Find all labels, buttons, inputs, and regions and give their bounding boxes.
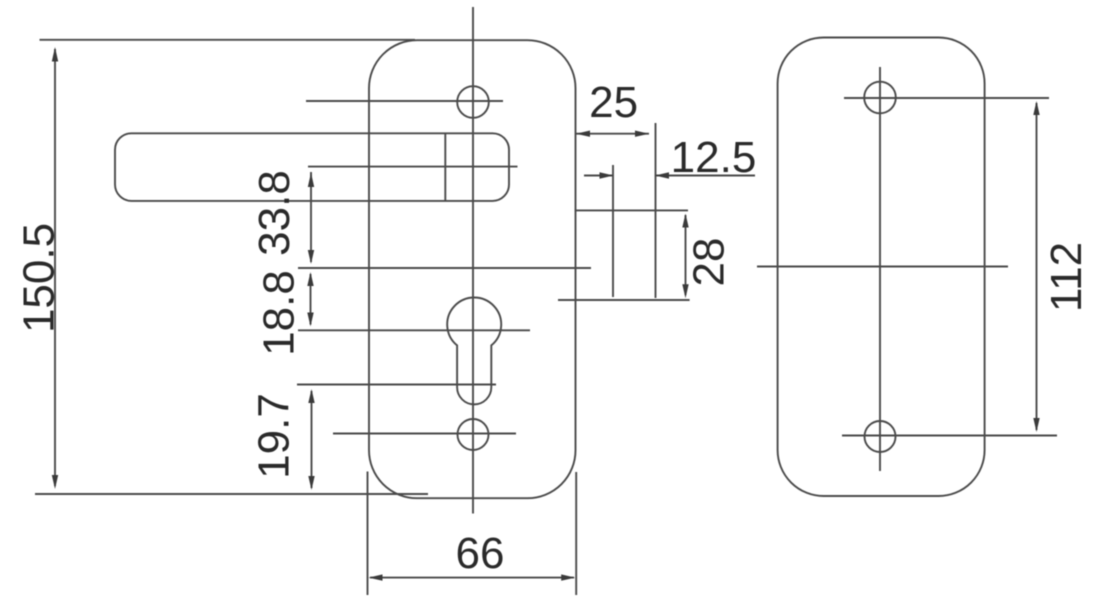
svg-text:33.8: 33.8 [250, 170, 299, 256]
dimension line 25 [576, 133, 649, 135]
arrowhead 33.8 down [308, 250, 314, 264]
arrowhead 19.7 up [308, 389, 314, 403]
dimension line 18.8 [310, 274, 312, 325]
arrowhead 150.5 down [52, 475, 58, 489]
svg-text:112: 112 [1042, 242, 1091, 312]
middle horizontal line top (28) [575, 209, 689, 211]
arrowhead 150.5 up [52, 47, 58, 62]
main plate outline [369, 40, 576, 498]
arrowhead 66 left [369, 574, 383, 580]
bottom extension line (150.5) [35, 493, 428, 495]
svg-text:18.8: 18.8 [255, 270, 304, 356]
plate horizontal centerline [298, 267, 591, 269]
66 left extension line [367, 472, 369, 596]
middle vertical line A (25/12.5 right reference) [655, 123, 657, 298]
svg-text:25: 25 [589, 78, 638, 127]
keyhole bottom reference line [297, 384, 496, 386]
dimension line 112 [1036, 103, 1038, 430]
svg-text:66: 66 [456, 529, 505, 578]
middle vertical line B (12.5 left reference) [612, 165, 614, 297]
strike bottom screw hole [865, 421, 896, 452]
66 right extension line [575, 472, 577, 595]
svg-text:150.5: 150.5 [14, 223, 63, 333]
bottom screw hole [458, 419, 489, 450]
arrowhead 18.8 down [307, 313, 313, 327]
dimension line 33.8 [310, 172, 312, 262]
arrowhead 33.8 up [308, 173, 314, 188]
arrowhead 66 right [561, 574, 575, 580]
dimension line 28 [685, 215, 687, 295]
lever handle outline [115, 133, 509, 201]
svg-text:28: 28 [685, 238, 734, 287]
dimension line 19.7 [311, 391, 313, 488]
middle horizontal line bottom (28) [558, 299, 690, 301]
12.5 right arrow tail [584, 175, 612, 177]
strike top screw hole horizontal line [844, 97, 1049, 99]
12.5 left arrow tail [656, 175, 755, 177]
strike bottom screw hole horizontal line [842, 435, 1057, 437]
strike plate outline [778, 38, 985, 497]
arrowhead 28 up [682, 214, 688, 228]
svg-text:12.5: 12.5 [671, 133, 757, 182]
arrowhead 25 left [576, 131, 590, 137]
strike plate vertical centerline [879, 67, 881, 471]
dimension line 150.5 [54, 49, 56, 486]
main plate vertical centerline [472, 7, 474, 514]
dimension line 66 [370, 577, 574, 579]
strike top screw hole [864, 82, 896, 114]
arrowhead 25 right [635, 131, 649, 137]
arrowhead 112 down [1033, 418, 1039, 432]
top extension line (150.5) [40, 39, 416, 41]
arrowhead 12.5 right [600, 172, 614, 178]
arrowhead 19.7 down [308, 476, 314, 490]
arrowhead 112 up [1033, 101, 1039, 115]
bottom screw hole horizontal line [333, 433, 516, 435]
handle neck line [444, 133, 446, 201]
svg-text:19.7: 19.7 [250, 393, 299, 479]
keyhole (euro profile) [447, 298, 501, 405]
top screw hole [457, 86, 489, 118]
arrowhead 28 down [682, 284, 688, 298]
strike horizontal centerline [757, 266, 1008, 268]
arrowhead 18.8 up [307, 272, 313, 286]
arrowhead 12.5 left [655, 172, 669, 178]
keyhole center horizontal line [298, 329, 530, 331]
top screw hole horizontal line [306, 100, 503, 102]
handle centerline [308, 166, 518, 168]
